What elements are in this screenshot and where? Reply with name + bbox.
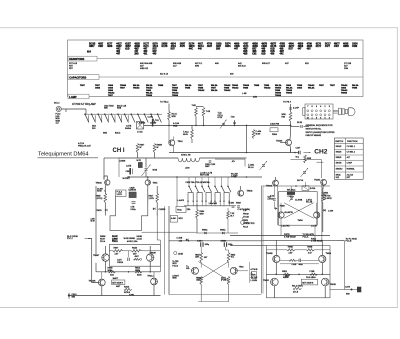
svg-text:4700: 4700 [207,43,213,46]
wire TR607 col [315,203,317,241]
wire TR613 drop [275,263,277,275]
label CH 1 [113,148,125,154]
svg-text:44B: 44B [215,63,219,65]
svg-text:A7B0 1.7M: A7B0 1.7M [181,154,191,157]
svg-text:T607: T607 [330,85,336,87]
svg-text:BC14: BC14 [198,45,205,48]
wire mid rail y2408 [169,240,263,242]
svg-text:AT HOR 6-T FRQ-AMP: AT HOR 6-T FRQ-AMP [72,103,96,106]
attenuator labels [92,125,132,135]
capacitor C619 [270,196,276,201]
svg-text:A0A: A0A [110,274,114,277]
note L-07K [311,226,318,228]
svg-text:24M: 24M [253,97,257,99]
svg-text:R177: R177 [316,46,322,48]
capacitor C608 [291,122,310,128]
note FW7B [284,234,296,238]
wire TR614 drop [280,263,322,275]
wire left col x96 [95,186,97,246]
svg-text:5: 5 [324,118,326,120]
svg-text:TRA0b: TRA0b [314,178,321,181]
svg-text:6: 6 [316,106,318,108]
label CH 2 [314,149,328,156]
svg-text:hyNBvM: hyNBvM [129,190,137,192]
svg-text:T607: T607 [80,85,86,87]
svg-text:TRA0M: TRA0M [89,280,96,283]
svg-text:T607: T607 [319,85,325,87]
svg-text:60B A17: 60B A17 [262,62,271,65]
svg-text:-007: -007 [204,257,208,259]
svg-text:46BB: 46BB [343,45,349,48]
svg-text:4.7M: 4.7M [218,117,223,119]
svg-text:Rb1.2 (W47): Rb1.2 (W47) [292,285,303,287]
transistor TR612 [147,276,157,285]
svg-text:L-4B: L-4B [242,93,247,95]
svg-text:SW1/2: SW1/2 [336,146,342,148]
svg-text:6174: 6174 [143,45,149,48]
set gain box RV603 [301,277,317,285]
svg-text:W-P-M: W-P-M [297,180,304,182]
svg-text:C1MD3: C1MD3 [159,209,167,211]
svg-text:2.B7: 2.B7 [289,253,293,255]
svg-text:TH1: TH1 [155,120,160,122]
svg-text:46B4: 46B4 [225,45,231,48]
wire R614 col [196,204,198,233]
channel 2 attenuator switch SW3 [188,177,231,192]
svg-text:W0M: W0M [135,270,140,272]
wire left input to TR611 [88,239,98,283]
wire y2718 rail [96,271,160,273]
svg-text:(P10B: (P10B [221,280,227,282]
note TO PC W10 [338,238,358,242]
svg-text:A5-A0PW: A5-A0PW [284,211,293,214]
svg-text:W-09: W-09 [256,133,262,135]
svg-text:TR60J: TR60J [263,280,269,282]
diode D601 [96,209,107,212]
jack plug symbol [333,108,355,116]
diode D605 [220,228,226,234]
note To TR6 [172,261,178,267]
transistor TR609 [93,254,109,261]
svg-text:2.67: 2.67 [308,253,312,255]
junction dots rail y152 [246,152,296,154]
svg-text:500: 500 [92,128,96,130]
svg-text:AB07: AB07 [285,274,290,277]
transistor TR610 [147,252,157,261]
wire TR603 top [147,177,149,180]
svg-text:SW11: SW11 [336,174,341,176]
transistor TR611 [89,279,106,286]
note A CCA FREQ [78,142,92,147]
svg-text:TRA03: TRA03 [276,140,283,143]
svg-text:P1C.A: P1C.A [112,240,118,243]
svg-text:TR60A: TR60A [96,181,103,184]
cross wires trigger [198,262,228,281]
diode D604 [202,228,208,234]
wire top rail y158 [104,158,119,177]
output node CA70 [330,285,361,295]
svg-text:W-1B: W-1B [297,122,303,124]
svg-text:T6064: T6064 [286,92,293,95]
bank lower rail [184,205,236,207]
attenuator bus wire [85,109,131,114]
svg-text:4M70: 4M70 [261,43,267,46]
wire TR610 drop [149,261,151,272]
wire R625 col [227,208,229,233]
capacitor C609 labels [205,161,216,168]
svg-text:FROM: FROM [243,213,249,215]
svg-text:46B: 46B [252,50,257,53]
output box CH1 [109,245,160,267]
capacitor C613 [229,202,235,207]
wire rail y2457 [230,245,267,247]
svg-text:44C: 44C [279,53,284,56]
svg-text:3: 3 [329,106,331,108]
transistor TR603 [145,180,158,185]
svg-text:AW7: AW7 [195,256,199,259]
svg-text:8.05A: 8.05A [310,187,316,190]
svg-text:T607: T607 [120,88,126,90]
resistor R625 [227,211,235,219]
input socket SK1 [54,102,61,111]
wire to PB4 vertical [290,104,292,112]
svg-text:T-6B: T-6B [192,105,197,107]
svg-text:AW7: AW7 [116,285,121,288]
wire trigger tails [198,285,229,302]
svg-text:4634: 4634 [171,43,177,46]
svg-text:C-60B: C-60B [177,237,183,239]
wire input to attenuator [61,108,86,110]
svg-text:R6B1: R6B1 [282,271,288,273]
svg-text:P1C.B: P1C.B [346,241,352,243]
cross-coupled wires [284,203,314,222]
resistor R601 [168,112,178,121]
svg-text:4407: 4407 [334,45,340,48]
parts list table frame [68,40,364,97]
note C61B [130,187,136,189]
svg-text:4M7: 4M7 [134,48,139,51]
wire TR609 drop [105,261,107,272]
svg-text:W: W [140,147,142,149]
wire C623 drop [200,247,202,253]
svg-text:W3B: W3B [173,125,178,127]
svg-text:TW6A: TW6A [326,252,332,255]
svg-text:C663: C663 [221,241,226,243]
note TO TC [112,236,118,243]
svg-text:A-0M: A-0M [171,217,176,220]
svg-text:648: 648 [230,73,234,75]
svg-text:LAMP: LAMP [69,95,77,99]
svg-text:CH SEL 2: CH SEL 2 [347,151,355,153]
note W-0B [124,238,130,240]
svg-text:0M3: 0M3 [103,133,108,135]
svg-text:T6064: T6064 [172,94,179,97]
diode D606 [177,237,189,242]
input label stack [56,114,62,125]
svg-text:46B7: 46B7 [125,45,131,48]
svg-text:4700: 4700 [307,43,313,46]
svg-text:4M70: 4M70 [189,45,195,48]
svg-text:C62: C62 [252,54,257,56]
svg-text:T6064: T6064 [275,94,282,97]
svg-text:TRA0B: TRA0B [266,252,273,255]
wire box top feeds CH2 [274,182,305,209]
svg-text:C604: C604 [297,87,303,90]
svg-text:T60B: T60B [352,88,358,90]
svg-text:P16I: P16I [306,277,310,279]
wire main signal bus y125 [144,125,291,127]
svg-text:W60A: W60A [202,228,208,231]
relay coil bank L602 [187,193,230,206]
svg-text:W-09: W-09 [183,134,189,136]
svg-text:SW7/8: SW7/8 [336,162,342,164]
svg-text:C-007B: C-007B [325,198,332,200]
parts table divider 1 [68,58,364,60]
svg-text:15/1B: 15/1B [178,253,184,255]
svg-text:CA7B: CA7B [126,165,132,168]
svg-text:X1-X10: X1-X10 [347,174,353,176]
wire input drop [65,109,67,112]
svg-text:C16A R08: C16A R08 [270,123,280,126]
svg-text:A TW-B: A TW-B [251,268,258,271]
connector SKT601 box [305,104,333,119]
note mid text block [231,172,238,177]
svg-text:A3B A12: A3B A12 [140,67,149,70]
svg-text:46B: 46B [261,50,266,53]
svg-text:R61B: R61B [132,248,138,250]
junction y186 [295,185,306,187]
resistor R608 [153,144,162,153]
svg-text:10: 10 [307,118,310,120]
resistor R607 [136,144,145,153]
svg-text:4600: 4600 [234,43,240,46]
note C60M [120,161,126,163]
svg-text:T60A2: T60A2 [224,89,231,92]
wire CH2 signal to TR608 [291,160,324,179]
title Telequipment DM64 [38,151,99,157]
wire bottom rail y2955 [69,295,161,297]
resistor R620 [132,248,142,256]
svg-text:C1-W0B: C1-W0B [295,200,303,202]
resistor R624 [310,271,318,279]
svg-text:C60B T60.4 T60.1B W6C0B+: C60B T60.4 T60.1B W6C0B+ [186,182,212,184]
capacitor C623 [197,241,209,247]
transistor TR607 [314,212,320,218]
svg-text:TW0B: TW0B [307,247,313,249]
svg-text:SW7C2 (GANG)PCB/CLIPPER: SW7C2 (GANG)PCB/CLIPPER [306,131,335,134]
svg-text:W0M: W0M [108,270,113,272]
svg-text:10M: 10M [344,68,348,70]
wire C624 drop [226,247,229,253]
svg-text:COLLECTOR: COLLECTOR [243,223,255,225]
wire TR602 top [104,176,107,180]
svg-text:T60B: T60B [243,88,249,90]
resistor R623 [282,271,291,279]
svg-text:2.37KQ: 2.37KQ [96,198,103,200]
svg-text:W-PBvT: W-PBvT [123,178,131,180]
wire R605 to bus [290,122,292,126]
svg-text:C604: C604 [95,87,101,90]
svg-text:4404: 4404 [289,43,295,46]
svg-text:470B: 470B [279,43,285,46]
svg-text:P1C.2: P1C.2 [67,238,73,240]
svg-text:46B0: 46B0 [298,43,304,46]
svg-text:8: 8 [316,118,318,120]
svg-text:C624: C624 [279,45,285,48]
svg-text:W0B: W0B [172,278,177,280]
note switch bank heading [186,182,212,184]
transistor TR615 [263,278,278,286]
svg-text:44C7: 44C7 [116,43,122,46]
svg-text:460p: 460p [299,264,303,266]
wire TR605 up [275,177,277,180]
capacitor C624 [221,241,233,247]
svg-text:2.37B: 2.37B [149,198,155,200]
svg-text:L60s M01: L60s M01 [209,203,217,205]
svg-text:TR60R: TR60R [150,252,157,254]
thermistor TH602 [287,189,296,199]
svg-text:614: 614 [87,50,92,53]
svg-text:463B: 463B [343,43,349,46]
note under TR604 [105,191,106,193]
wire TB junction vertical [168,104,170,126]
wire left output [95,246,97,272]
svg-text:CAPACITORS: CAPACITORS [69,76,86,80]
svg-text:C-43.7K5: C-43.7K5 [281,226,290,228]
CAPACITORS section tab [68,75,99,80]
note left col labels [97,189,103,193]
svg-text:463: 463 [143,50,148,53]
transistor TR616 [321,278,336,286]
note C-6TB [306,200,313,204]
svg-text:4637: 4637 [98,43,104,46]
RESISTORS section tab [68,56,97,61]
svg-text:4M77: 4M77 [334,43,340,46]
svg-text:4M77: 4M77 [289,45,295,48]
svg-text:2.70B W02M: 2.70B W02M [311,241,323,243]
svg-text:8: 8 [312,106,314,108]
note Rb P-1 R0B [67,236,90,240]
svg-text:4M77: 4M77 [270,43,276,46]
wire bus vertical x246 [246,125,248,152]
svg-text:W09: W09 [200,213,205,215]
connector pin numbers bottom [307,118,331,120]
svg-text:SWITCH: SWITCH [335,141,343,143]
capacitor C607 [289,108,299,110]
wire left col CH2amp [277,186,279,225]
note left col labels2 [91,219,96,223]
screen partition outline [110,197,148,231]
diode D602 [153,208,166,211]
wire TR613 top [276,240,322,255]
wire TR601 collector [289,125,292,139]
svg-text:SET GAIN M: SET GAIN M [302,281,313,284]
wire right trigger [248,262,250,283]
svg-text:P1C.B: P1C.B [172,265,178,267]
svg-text:FREQ-HI-CAT: FREQ-HI-CAT [78,144,92,147]
svg-text:C62B: C62B [292,264,297,266]
transistor TR620 [230,267,243,275]
note R607 top [112,236,118,242]
svg-text:W-1.5B: W-1.5B [306,202,313,204]
svg-text:M-0B 2.10A: M-0B 2.10A [127,240,138,243]
svg-text:TO TBL2: TO TBL2 [160,101,169,103]
wire R602 [191,125,193,143]
wire TR601 base [280,142,286,144]
svg-text:W-P1: W-P1 [137,160,142,162]
svg-text:7: 7 [307,106,309,108]
note 5aI7 [268,197,275,201]
svg-text:2.10A: 2.10A [137,238,143,241]
svg-text:SW3/4: SW3/4 [336,151,342,153]
wire middle bottom [169,294,261,296]
capacitor C612 [131,202,137,211]
resistor RV602 [124,286,135,297]
svg-text:46B: 46B [243,53,248,56]
svg-text:44C4: 44C4 [152,45,158,48]
note R60M F104 [100,236,106,243]
screen pickoff symbol [174,251,184,255]
wire rail y186 [263,185,330,187]
svg-text:4470: 4470 [180,45,186,48]
note C-W7V [238,209,251,211]
svg-text:RESISTORS: RESISTORS [69,57,84,61]
page bottom border [0,307,398,309]
svg-text:TRA07: TRA07 [93,254,100,257]
svg-text:AW7: AW7 [135,255,140,258]
svg-text:R174: R174 [189,43,195,46]
wire TR603 emitter col [147,185,149,205]
component cluster R604 [270,123,280,137]
wire right drop x344 [343,240,345,262]
svg-text:TRA2: TRA2 [178,140,184,143]
resistor R605 [282,112,292,122]
svg-text:17C1B: 17C1B [243,217,250,219]
svg-text:W-M: W-M [91,221,95,223]
note C-43 [281,226,290,228]
legend text [306,124,335,137]
wire TR602 emitter col [104,185,106,215]
svg-text:T60A2: T60A2 [264,87,271,90]
parts table resistor entries [69,62,352,75]
svg-text:2.37B: 2.37B [117,194,123,196]
svg-text:T60B: T60B [158,85,164,87]
diode D607 [275,207,277,210]
svg-text:C602A: C602A [117,261,124,264]
svg-text:C61B: C61B [130,187,136,189]
svg-text:EXT: EXT [347,177,352,179]
svg-text:W07 R-0M: W07 R-0M [200,174,209,176]
svg-text:P10.4: P10.4 [243,227,248,229]
svg-text:CH SEL 1: CH SEL 1 [347,146,355,148]
svg-text:6203: 6203 [137,275,142,277]
svg-text:4400: 4400 [352,45,358,48]
note above bank [200,171,213,176]
wire rail y158 [119,157,178,159]
svg-text:W-7: W-7 [230,215,235,217]
parts table divider 2 [68,76,364,78]
svg-text:TRb0B: TRb0B [330,284,337,286]
transistor TR618 [169,140,184,146]
svg-text:461B: 461B [134,43,140,46]
svg-text:W: W [157,147,159,149]
svg-text:CMD1: CMD1 [96,210,103,212]
resistor R611 [149,194,159,203]
svg-text:FUNCTION: FUNCTION [347,141,358,143]
note L60s [209,203,217,205]
parts table semiconductor entries [87,43,358,56]
svg-text:T60A2: T60A2 [232,87,239,90]
